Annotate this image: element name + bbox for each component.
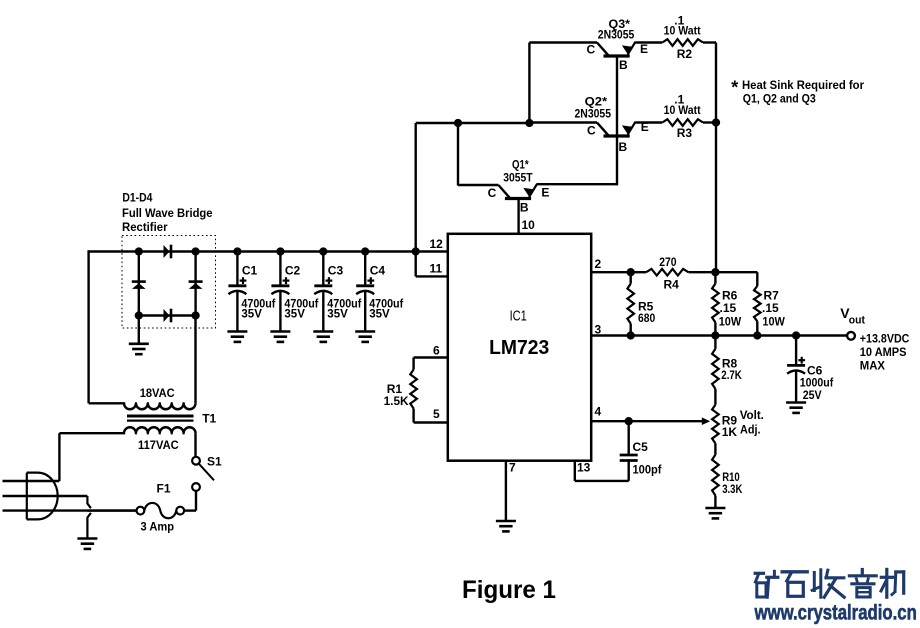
svg-text:3.3K: 3.3K (722, 482, 742, 496)
label Volt Adj (740, 408, 764, 436)
svg-text:3055T: 3055T (503, 170, 533, 184)
node R6 bottom junction (711, 331, 719, 339)
svg-text:2N3055: 2N3055 (598, 27, 635, 41)
transformer T1 primary winding 117VAC (59, 427, 195, 457)
svg-text:2.7K: 2.7K (721, 368, 742, 382)
label IC1 (510, 308, 527, 325)
diode D1 top (bridge) (164, 245, 172, 259)
wire right rail R2 to R3 (715, 43, 716, 123)
label output rating (860, 331, 910, 372)
svg-text:35V: 35V (327, 306, 348, 320)
svg-text:C3: C3 (328, 264, 344, 278)
resistor R5 680 (627, 272, 634, 335)
svg-text:R3: R3 (677, 126, 693, 140)
svg-text:5: 5 (433, 407, 440, 421)
svg-text:B: B (520, 201, 529, 215)
svg-text:F1: F1 (157, 482, 171, 496)
label C5 (633, 440, 663, 477)
wire pin4 wiper to R9 (629, 420, 705, 422)
node R7 bottom junction (753, 331, 761, 339)
label Q1 (503, 158, 533, 185)
svg-text:R4: R4 (664, 277, 680, 291)
label pin 7 (509, 461, 516, 475)
svg-text:B: B (619, 58, 628, 72)
svg-text:C4: C4 (370, 264, 386, 278)
svg-text:2N3055: 2N3055 (575, 107, 612, 121)
svg-text:LM723: LM723 (489, 337, 549, 359)
label Q3 B (619, 58, 628, 72)
svg-text:S1: S1 (207, 455, 222, 469)
dotted box around bridge rectifier (122, 236, 216, 329)
output terminal circle (847, 332, 855, 340)
label R3 (664, 92, 701, 140)
node R5 bottom junction (627, 331, 635, 339)
wire R4 junction to R7 (715, 271, 757, 273)
wire bridge bottom-left to ground (138, 316, 140, 344)
node rail tap C1 (233, 247, 241, 255)
wire pin 11 stub (416, 275, 448, 277)
svg-text:4: 4 (595, 405, 602, 419)
transformer T1 core (127, 416, 194, 421)
label heat sink note (731, 78, 864, 106)
R9 wiper arrow (702, 417, 710, 425)
svg-text:C2: C2 (285, 264, 301, 278)
node bridge top-left junction (135, 247, 143, 255)
label R6 (719, 288, 742, 328)
svg-text:+13.8VDC: +13.8VDC (860, 331, 910, 345)
label S1 (207, 455, 222, 469)
svg-text:D1-D4: D1-D4 (122, 190, 152, 204)
label pin 10 (522, 218, 536, 232)
resistor R7 .15 10W (754, 272, 761, 335)
label pin 11 (430, 262, 443, 276)
transistor Q3 2N3055 (529, 42, 635, 56)
svg-text:10: 10 (522, 218, 536, 232)
svg-text:1.5K: 1.5K (384, 394, 409, 408)
svg-text:Adj.: Adj. (740, 422, 761, 436)
svg-text:680: 680 (638, 311, 655, 325)
ground below bridge (129, 344, 149, 354)
svg-text:10 Watt: 10 Watt (664, 23, 701, 37)
svg-text:Full Wave Bridge: Full Wave Bridge (122, 206, 213, 220)
wire bridge right vertical (194, 252, 196, 316)
transformer T1 secondary winding 18VAC (89, 316, 196, 410)
wire pin 12 stub (416, 250, 448, 252)
capacitor C3 4700uf 35V (314, 252, 362, 332)
label D1-D4 Full Wave Bridge Rectifier (122, 190, 213, 234)
svg-text:R2: R2 (677, 47, 693, 61)
diode D3 right (bridge) (189, 282, 203, 289)
ground below R10 (705, 508, 725, 518)
label Q1 E (541, 186, 549, 200)
ground below C4 (355, 332, 375, 342)
svg-text:270: 270 (659, 255, 677, 269)
svg-text:35V: 35V (369, 306, 390, 320)
label pin 13 (577, 461, 591, 475)
svg-text:13: 13 (577, 461, 591, 475)
resistor R1 1.5K (410, 358, 417, 423)
svg-text:117VAC: 117VAC (138, 438, 179, 452)
node R4/R6 junction (711, 268, 719, 276)
wire right rail R3 to R4 junction (715, 123, 717, 273)
svg-text:C1: C1 (242, 264, 258, 278)
label R8 (721, 356, 742, 382)
wire Q1 base to pin 10 (517, 200, 519, 234)
label Q2 C (587, 123, 596, 137)
node rail tap C2 (276, 247, 284, 255)
svg-text:10 Watt: 10 Watt (664, 103, 701, 117)
svg-text:2: 2 (595, 257, 602, 271)
diode D4 bottom (bridge) (164, 309, 172, 323)
wire pin 4 stub (591, 420, 629, 422)
label R9 (722, 414, 738, 439)
svg-text:IC1: IC1 (510, 308, 527, 325)
svg-text:Q1, Q2 and Q3: Q1, Q2 and Q3 (743, 92, 816, 106)
svg-text:C: C (587, 43, 596, 57)
wire pin 5 stub (414, 421, 448, 423)
fuse F1 3 Amp (137, 503, 185, 518)
svg-text:C5: C5 (633, 440, 649, 454)
transistor Q2 2N3055 (529, 122, 635, 136)
wire bridge top edge (139, 250, 196, 252)
label LM723 (489, 337, 549, 359)
ground below C1 (227, 332, 247, 342)
wire Q3 collector riser (528, 43, 530, 124)
node right rail R3 junction (712, 118, 720, 126)
wire Q1 collector riser (457, 123, 459, 186)
svg-text:T1: T1 (202, 412, 216, 426)
wire Q1 emitter to base rail (536, 56, 617, 185)
label Vout (840, 305, 865, 326)
wire bridge left vertical (138, 252, 140, 316)
node C6 junction (792, 331, 800, 339)
svg-text:25V: 25V (803, 388, 822, 402)
label Q2 (575, 95, 612, 121)
svg-text:Volt.: Volt. (740, 408, 764, 422)
svg-text:10W: 10W (762, 314, 785, 328)
node junction rail/pin12/collector riser (412, 247, 420, 255)
wire top rail from transformer riser to bridge (89, 250, 139, 252)
wire collector rail horizontal (416, 122, 530, 124)
label T1 (202, 412, 216, 426)
svg-text:7: 7 (509, 461, 516, 475)
wire pin 13 stub (575, 461, 629, 481)
node bridge bottom-left junction (135, 311, 143, 319)
wire plug neutral to ground with hop (87, 496, 91, 538)
label Q1 C (488, 186, 497, 200)
transistor Q1 3055T (458, 184, 537, 198)
svg-text:18VAC: 18VAC (140, 386, 175, 400)
label R10 (722, 470, 742, 496)
label 18VAC (140, 386, 175, 400)
svg-text:C: C (488, 186, 497, 200)
watermark url (754, 602, 917, 625)
wire pin 3 output line (591, 334, 847, 336)
node collector rail / Q1 riser (454, 119, 462, 127)
capacitor C2 4700uf 35V (271, 252, 319, 332)
svg-text:6: 6 (433, 343, 440, 357)
label pin 5 (433, 407, 440, 421)
label R4 (659, 255, 679, 291)
svg-text:E: E (640, 42, 648, 56)
label R1 (384, 382, 409, 408)
svg-text:10 AMPS: 10 AMPS (860, 345, 907, 359)
wire pin 2 stub (591, 271, 631, 273)
svg-text:E: E (541, 186, 549, 200)
node rail tap C4 (361, 247, 369, 255)
label pin 4 (595, 405, 602, 419)
wire pin11 drop (415, 252, 417, 277)
node rail tap C3 (319, 247, 327, 255)
capacitor C5 100pf (620, 421, 638, 481)
svg-text:12: 12 (430, 237, 444, 251)
label Q2 E (641, 120, 649, 134)
wire plug hot riser (58, 433, 60, 481)
wire bridge bottom edge (139, 314, 196, 316)
wire secondary riser vertical (87, 250, 89, 403)
svg-text:100pf: 100pf (633, 463, 663, 477)
wire collector riser vertical (415, 123, 417, 253)
label pin 12 (430, 237, 444, 251)
wire pin 6 stub (414, 356, 448, 358)
svg-text:11: 11 (430, 262, 443, 276)
capacitor C4 4700uf 35V (356, 252, 404, 332)
resistor R10 3.3K (712, 443, 719, 507)
svg-text:www.crystalradio.cn: www.crystalradio.cn (754, 602, 917, 625)
label Q3 C (587, 43, 596, 57)
op-amp U1 regulator IC1 LM723 box (448, 234, 591, 461)
resistor R6 .15 10W (712, 272, 719, 335)
label Q1 B (520, 201, 529, 215)
diode D2 left (bridge) (132, 282, 146, 289)
wire pin 7 to ground (505, 461, 507, 521)
ground pin 7 (496, 521, 516, 531)
node collector rail / Q3 riser (525, 119, 533, 127)
label pin 2 (595, 257, 602, 271)
svg-text:*: * (731, 78, 738, 98)
capacitor C1 4700uf 35V (228, 252, 276, 332)
switch S1 (184, 457, 214, 511)
label pin 6 (433, 343, 440, 357)
svg-text:C: C (587, 123, 596, 137)
label Q2 B (619, 140, 628, 154)
label Q3 E (640, 42, 648, 56)
node pin2/R5 junction (627, 268, 635, 276)
node bridge bottom-right junction (191, 311, 199, 319)
label R7 (762, 288, 786, 328)
watermark crystalradio logo (755, 569, 904, 597)
svg-text:.15: .15 (762, 301, 779, 315)
resistor R4 270 (631, 269, 716, 276)
wire main rail bridge to pin12 junction (196, 250, 416, 252)
potentiometer R9 1K (712, 405, 719, 444)
node bridge top-right junction (191, 247, 199, 255)
svg-text:10W: 10W (719, 314, 742, 328)
AC plug (3, 473, 137, 520)
svg-text:3: 3 (595, 322, 602, 336)
wire fuse to plug (87, 509, 136, 511)
svg-text:35V: 35V (241, 306, 262, 320)
svg-text:Figure 1: Figure 1 (462, 576, 556, 604)
ground below plug (77, 539, 97, 549)
label Q3 (598, 17, 635, 41)
svg-text:B: B (619, 140, 628, 154)
node pin4/C5 junction (625, 417, 633, 425)
label 3 Amp (141, 520, 175, 534)
label Figure 1 (462, 576, 556, 604)
ground below C6 (786, 403, 806, 413)
svg-text:1K: 1K (722, 425, 738, 439)
resistor R8 2.7K (712, 336, 719, 405)
label C6 (800, 364, 834, 402)
resistor R2 .1 10 Watt (636, 39, 717, 46)
svg-text:out: out (849, 315, 865, 327)
capacitor C6 1000uf 25V (787, 336, 805, 403)
label R2 (664, 13, 701, 60)
label F1 (157, 482, 171, 496)
svg-text:Rectifier: Rectifier (122, 220, 168, 234)
label pin 3 (595, 322, 602, 336)
svg-text:3 Amp: 3 Amp (141, 520, 175, 534)
ground below C2 (270, 332, 290, 342)
label 117VAC (138, 438, 179, 452)
svg-text:35V: 35V (284, 306, 305, 320)
svg-text:Heat Sink Required for: Heat Sink Required for (742, 78, 864, 92)
label R5 (638, 300, 655, 326)
svg-text:.15: .15 (720, 301, 737, 315)
svg-text:MAX: MAX (860, 358, 885, 372)
resistor R3 .1 10 Watt (636, 119, 717, 126)
ground below C3 (313, 332, 333, 342)
